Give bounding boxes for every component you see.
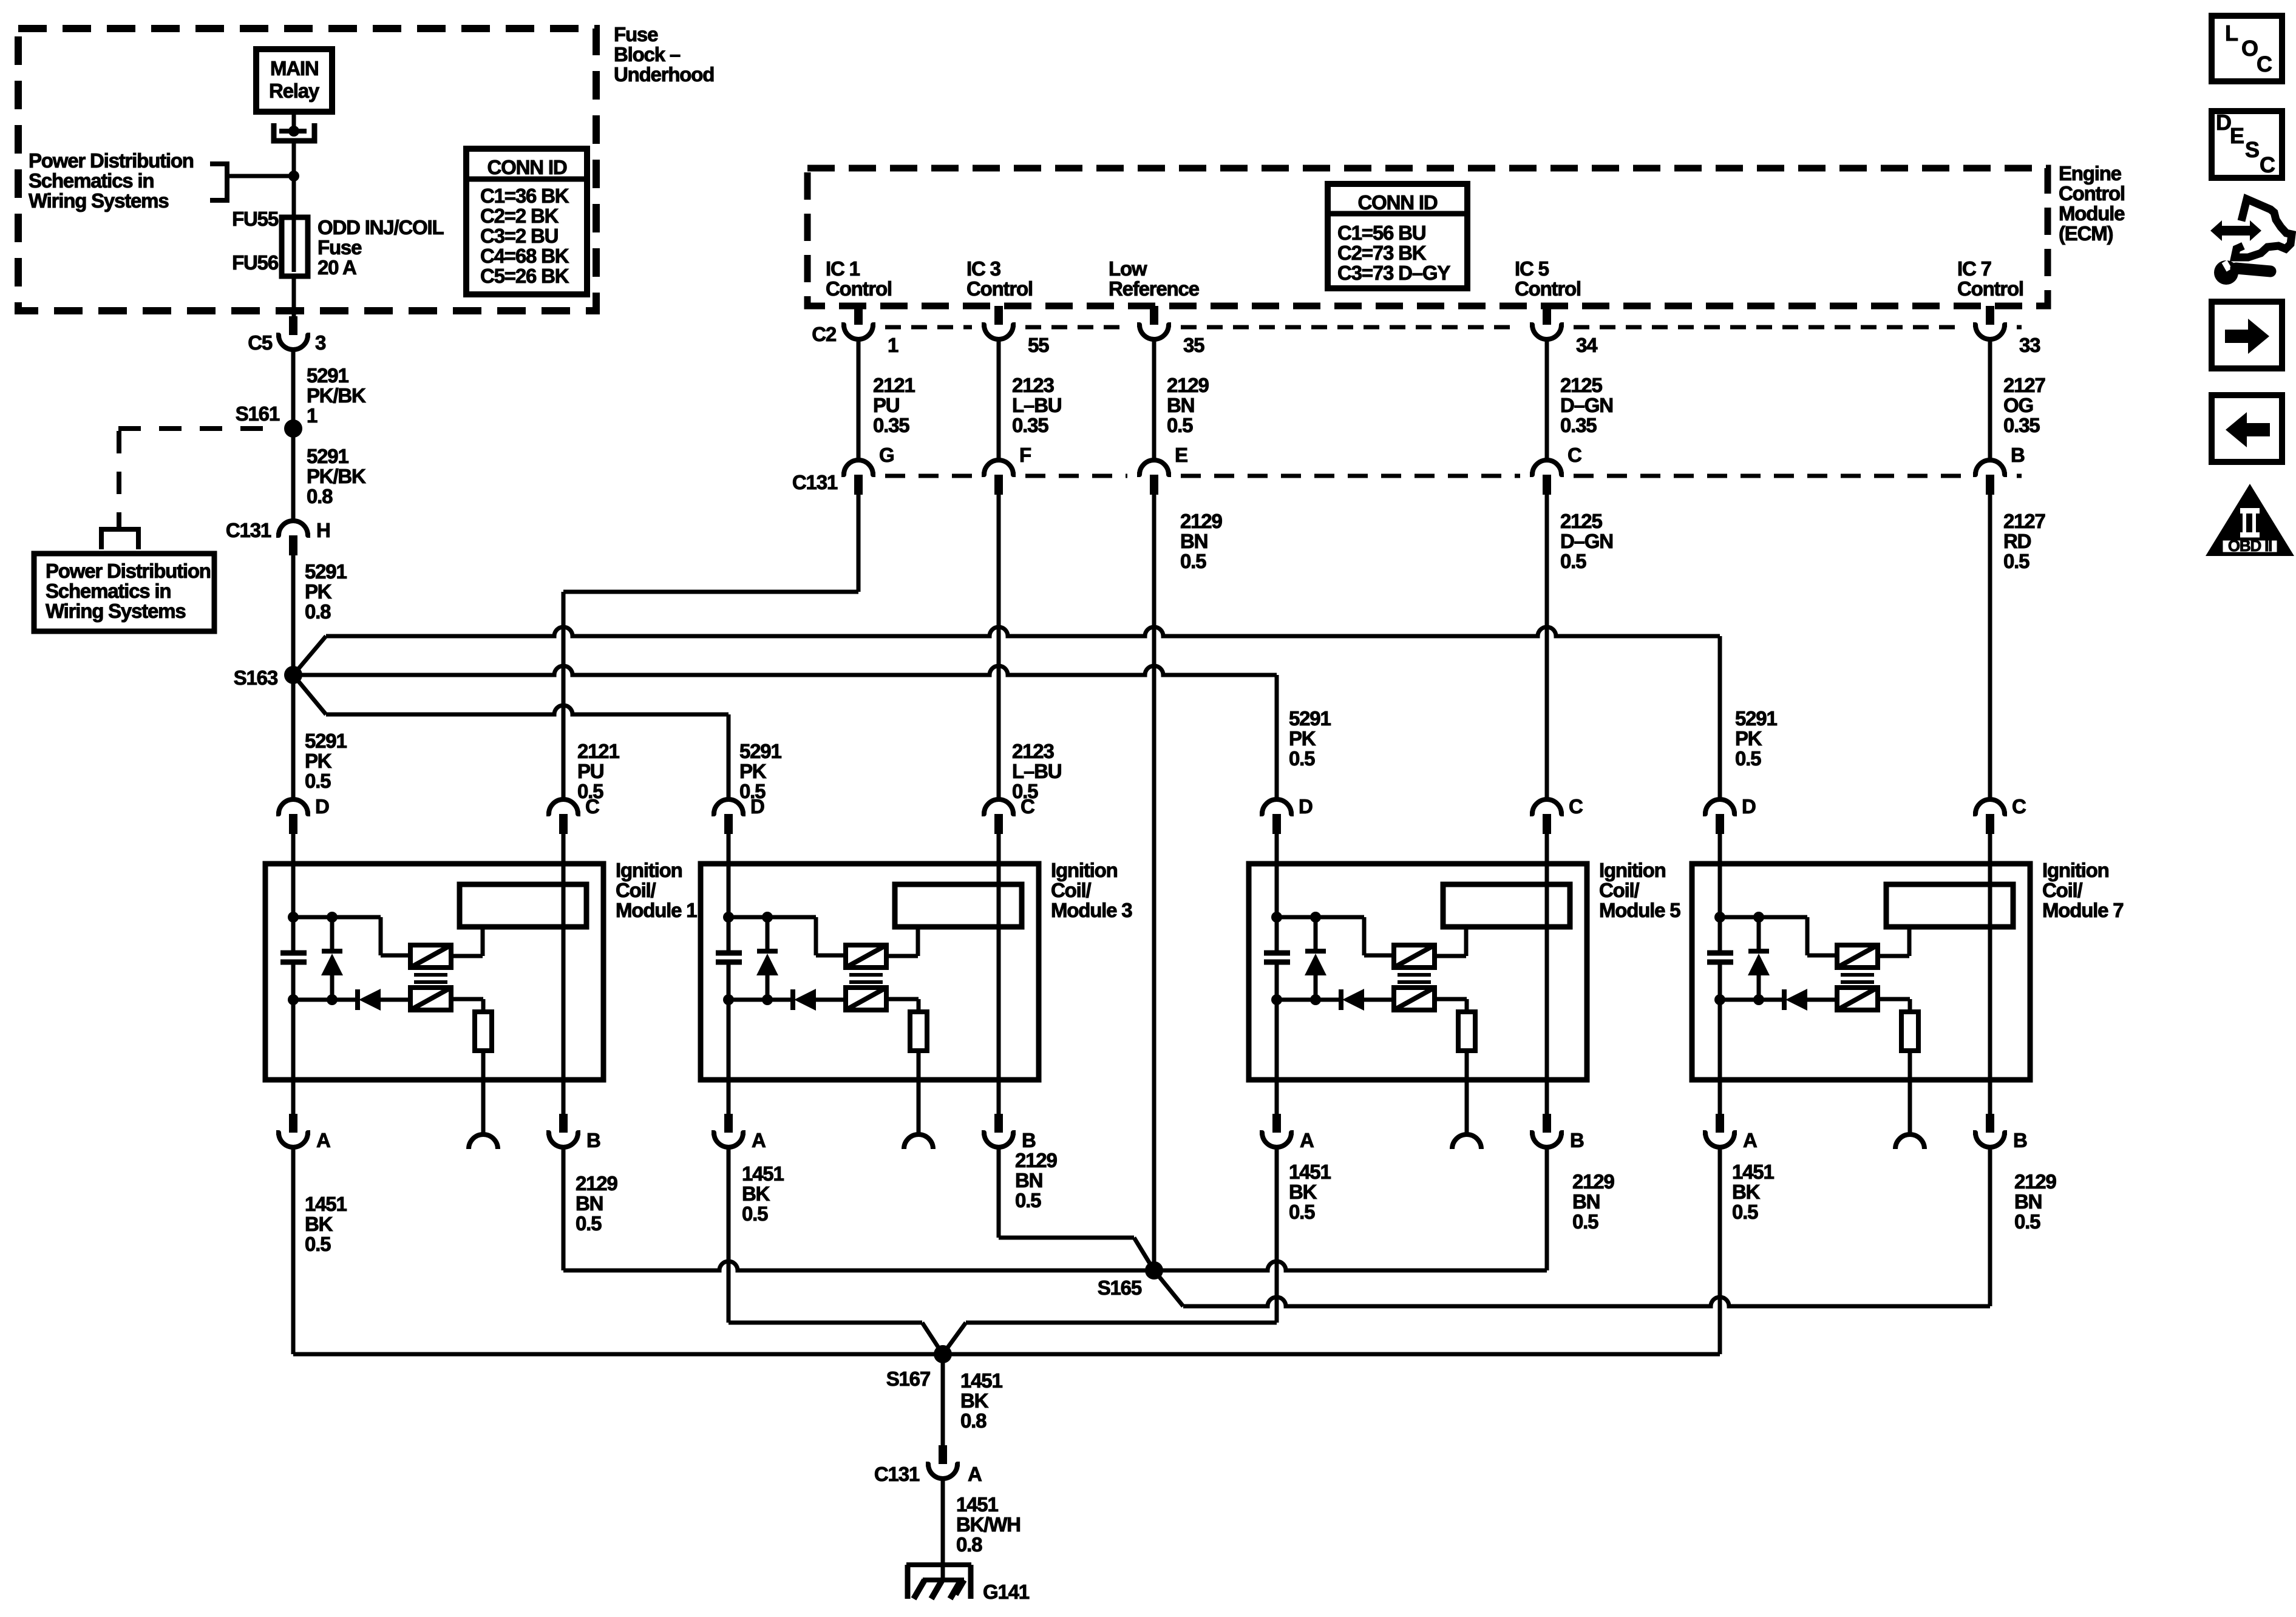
coil primary winding (module 1) <box>410 945 451 968</box>
label: IC 5 Control <box>1515 257 1581 300</box>
zener diode (module 7) <box>1748 917 1770 1000</box>
spark plug terminal (module 3) <box>904 1134 933 1149</box>
label: Ignition Coil/ Module 3 <box>1051 859 1132 921</box>
svg-text:BK: BK <box>1289 1181 1317 1203</box>
svg-text:A: A <box>752 1129 766 1151</box>
splice S165 <box>1098 1261 1163 1299</box>
svg-text:PK/BK: PK/BK <box>307 465 366 487</box>
svg-text:2129: 2129 <box>576 1172 617 1195</box>
svg-text:1451: 1451 <box>305 1193 347 1215</box>
svg-text:2123: 2123 <box>1012 374 1054 396</box>
zener diode (module 5) <box>1305 917 1326 1000</box>
connector: module 7 pin D <box>1703 795 1756 834</box>
label: ODD INJ/COIL Fuse 20 A <box>318 216 444 279</box>
wire C131-C down, label 2125 D-GN 0.5 <box>1547 495 1613 799</box>
svg-text:35: 35 <box>1183 334 1204 356</box>
svg-text:G: G <box>879 444 894 466</box>
svg-text:2129: 2129 <box>1167 374 1209 396</box>
wire pin D into module 3 <box>727 834 731 864</box>
svg-text:A: A <box>316 1129 330 1151</box>
svg-text:Reference: Reference <box>1109 277 1200 300</box>
wire: module 5 left rail (D to A) <box>1275 864 1279 1080</box>
svg-text:Control: Control <box>1957 277 2023 300</box>
wire C131-F to module 3 pin C <box>997 495 1001 799</box>
svg-text:O: O <box>2241 36 2258 61</box>
connector block (module 5) <box>1443 884 1570 927</box>
svg-text:C2=73 BK: C2=73 BK <box>1337 242 1427 264</box>
connector: module 5 pin A <box>1260 1114 1314 1151</box>
svg-text:Relay: Relay <box>269 80 320 102</box>
svg-text:5291: 5291 <box>1289 707 1331 730</box>
svg-text:C: C <box>2257 52 2272 76</box>
svg-text:C: C <box>2012 795 2026 818</box>
svg-text:1451: 1451 <box>1732 1161 1774 1183</box>
wire S163 to module 1 D, label 5291 PK 0.5 <box>293 675 347 799</box>
wire pin A below module 5 <box>1275 1080 1279 1114</box>
svg-text:1451: 1451 <box>742 1162 784 1185</box>
wire C2-55 to C131-F, label 2123 L-BU 0.35 <box>999 341 1061 460</box>
coil primary winding (module 7) <box>1837 945 1878 968</box>
svg-text:Module: Module <box>2059 202 2125 225</box>
bracket: power distribution reference <box>210 164 227 200</box>
svg-text:1451: 1451 <box>1289 1161 1331 1183</box>
svg-text:IC 3: IC 3 <box>966 257 1001 280</box>
svg-text:0.5: 0.5 <box>305 770 331 792</box>
svg-text:C: C <box>585 795 599 818</box>
svg-text:5291: 5291 <box>307 364 348 387</box>
label FU56 <box>232 251 279 274</box>
coil core (module 3) <box>849 975 883 982</box>
svg-text:BN: BN <box>1572 1190 1600 1213</box>
capacitor (module 3) <box>716 953 742 962</box>
svg-text:PU: PU <box>873 394 899 416</box>
svg-text:A: A <box>968 1463 982 1485</box>
connector C2 pin 33 <box>1973 306 2040 356</box>
svg-text:A: A <box>1743 1129 1757 1151</box>
label: Engine Control Module (ECM) <box>2059 162 2125 245</box>
coil secondary winding (module 7) <box>1837 988 1878 1010</box>
coil primary winding (module 3) <box>846 945 886 968</box>
svg-text:1: 1 <box>888 334 898 356</box>
wire: module 7 left rail (D to A) <box>1718 864 1722 1080</box>
svg-text:B: B <box>2011 444 2025 466</box>
svg-text:0.5: 0.5 <box>1572 1210 1598 1233</box>
svg-text:2123: 2123 <box>1012 740 1054 762</box>
wire node1 jog to primary coil (module 3) <box>729 917 846 955</box>
svg-text:Module 3: Module 3 <box>1051 899 1132 921</box>
svg-text:PK: PK <box>1289 727 1316 750</box>
fuse block underhood (dashed box) <box>18 29 596 311</box>
connector C2 pin 55 <box>982 306 1049 356</box>
svg-text:Schematics in: Schematics in <box>46 580 171 602</box>
svg-text:0.5: 0.5 <box>1560 550 1586 572</box>
wire module 5 B to S165, label 2129 BN 0.5 <box>1154 1149 1614 1270</box>
svg-text:C2=2 BK: C2=2 BK <box>480 205 559 227</box>
wire pin B below module 1 <box>562 1080 566 1114</box>
wire module 1 A to S167, label 1451 BK 0.5 <box>293 1149 347 1354</box>
svg-text:L: L <box>2225 21 2238 46</box>
svg-text:Underhood: Underhood <box>614 63 714 86</box>
svg-text:BN: BN <box>2014 1190 2042 1213</box>
svg-text:5291: 5291 <box>305 730 347 752</box>
svg-text:Ignition: Ignition <box>2042 859 2109 881</box>
wire pin A below module 1 <box>291 1080 296 1114</box>
svg-text:BN: BN <box>576 1192 603 1215</box>
svg-text:IC 1: IC 1 <box>826 257 860 280</box>
svg-text:Control: Control <box>826 277 892 300</box>
connector: module 7 pin B <box>1973 1114 2027 1151</box>
connector: module 3 pin A <box>712 1114 766 1151</box>
resistor (module 7) <box>1901 1012 1918 1051</box>
ground G141 <box>906 1565 1030 1603</box>
connector: module 7 pin A <box>1703 1114 1757 1151</box>
svg-text:Control: Control <box>966 277 1033 300</box>
svg-text:Power Distribution: Power Distribution <box>29 149 194 172</box>
ignition coil module 7 box <box>1692 864 2030 1080</box>
svg-text:0.35: 0.35 <box>1560 414 1597 436</box>
splice S167 <box>886 1345 952 1390</box>
svg-text:S: S <box>2245 137 2259 162</box>
label: Power Distribution Schematics in Wiring Systems (top) <box>29 149 194 212</box>
svg-text:S163: S163 <box>234 666 278 689</box>
wire pin D into module 7 <box>1718 834 1722 864</box>
svg-text:RD: RD <box>2003 530 2031 552</box>
svg-text:Control: Control <box>1515 277 1581 300</box>
label: IC 3 Control <box>966 257 1033 300</box>
label: Low Reference <box>1109 257 1200 300</box>
engine control module ECM (dashed box) <box>807 168 2048 306</box>
svg-text:C1=56 BU: C1=56 BU <box>1337 222 1425 244</box>
svg-text:PK: PK <box>305 580 332 603</box>
wire pin C into module 5 <box>1545 834 1549 864</box>
svg-text:PU: PU <box>577 760 603 782</box>
wire C131 H to S163, label 5291 PK 0.8 <box>293 555 347 675</box>
resistor (module 1) <box>475 1012 492 1051</box>
connector: module 3 pin D <box>712 795 764 834</box>
svg-text:0.35: 0.35 <box>1012 414 1048 436</box>
wire C5 to S161, label 5291 PK/BK 1 <box>293 351 366 429</box>
wire pin B below module 7 <box>1988 1080 1992 1114</box>
ignition coil module 3 box <box>701 864 1039 1080</box>
wire secondary to resistor (module 7) <box>1878 999 1910 1012</box>
svg-text:ODD INJ/COIL: ODD INJ/COIL <box>318 216 444 239</box>
connector C131 pin F <box>982 444 1031 495</box>
spark plug terminal (module 7) <box>1895 1134 1924 1149</box>
connector C2 pin 34 <box>1530 306 1598 356</box>
svg-text:0.5: 0.5 <box>742 1202 768 1225</box>
connector block (module 3) <box>895 884 1022 927</box>
svg-text:Ignition: Ignition <box>1599 859 1666 881</box>
wire module 3 A to S167, label 1451 BK 0.5 <box>729 1149 943 1354</box>
icon: OBD II triangle <box>2206 484 2294 556</box>
svg-text:0.5: 0.5 <box>1015 1189 1041 1212</box>
wire node1 jog to primary coil (module 1) <box>293 917 410 955</box>
svg-text:0.5: 0.5 <box>2003 550 2029 572</box>
wire: module 7 right rail (C to B) <box>1988 864 1992 1080</box>
svg-text:5291: 5291 <box>305 560 347 583</box>
svg-text:0.5: 0.5 <box>1735 747 1761 770</box>
svg-text:IC 5: IC 5 <box>1515 257 1549 280</box>
svg-text:33: 33 <box>2019 334 2040 356</box>
label: IC 7 Control <box>1957 257 2023 300</box>
wire secondary to resistor (module 5) <box>1435 999 1467 1012</box>
node dots (module 1) <box>288 912 338 1005</box>
wire module 5 A to S167, label 1451 BK 0.5 <box>943 1149 1331 1354</box>
wire: module 1 right rail (C to B) <box>562 864 566 1080</box>
connector C2 pin 35 <box>1137 306 1204 356</box>
wire C2-1 to C131-G, label 2121 PU 0.35 <box>858 341 915 460</box>
wire module 1 B to S165, label 2129 BN 0.5 <box>563 1149 1154 1270</box>
svg-text:Wiring Systems: Wiring Systems <box>29 189 168 212</box>
wire S163 branch to module 7 D <box>293 627 1720 799</box>
svg-text:S161: S161 <box>236 402 280 425</box>
svg-text:PK/BK: PK/BK <box>307 384 366 407</box>
wire primary to connector block (module 1) <box>451 927 483 956</box>
svg-text:0.8: 0.8 <box>956 1533 982 1556</box>
connector: module 5 pin D <box>1260 795 1313 834</box>
connector: module 1 pin B <box>546 1114 600 1151</box>
wire C131 A to ground, label 1451 BK/WH 0.8 <box>943 1480 1021 1578</box>
wire C131-E down, label 2129 BN 0.5 <box>1154 495 1222 1270</box>
svg-text:5291: 5291 <box>307 445 348 467</box>
CONN ID table (ECM) <box>1328 184 1467 288</box>
ignition coil module 1 box <box>265 864 603 1080</box>
coil secondary winding (module 3) <box>846 988 886 1010</box>
splice S163 <box>234 666 302 689</box>
svg-text:B: B <box>2013 1129 2027 1151</box>
icon: DESC box <box>2212 110 2282 178</box>
wire S163 branch to module 5 D, label 5291 PK 0.5 <box>293 666 1777 799</box>
wire pin A below module 7 <box>1718 1080 1722 1114</box>
svg-text:20 A: 20 A <box>318 256 356 279</box>
svg-text:2129: 2129 <box>1180 510 1222 532</box>
svg-text:IC 7: IC 7 <box>1957 257 1991 280</box>
wire pin B below module 3 <box>997 1080 1001 1114</box>
svg-text:0.5: 0.5 <box>2014 1210 2040 1233</box>
node dots (module 3) <box>723 912 773 1005</box>
svg-text:0.5: 0.5 <box>1167 414 1193 436</box>
wire resistor to spark terminal (module 1) <box>481 1051 486 1134</box>
coil core (module 5) <box>1398 975 1431 982</box>
icon: LOC box <box>2212 16 2282 81</box>
dashed leader from S161 to power distribution box <box>101 429 280 549</box>
coil primary winding (module 5) <box>1394 945 1435 968</box>
diode (module 3) <box>729 989 846 1011</box>
svg-text:C131: C131 <box>792 471 838 493</box>
connector C131 pin B <box>1973 444 2025 495</box>
svg-text:E: E <box>1175 444 1187 466</box>
wire C2-34 to C131-C, label 2125 D-GN 0.35 <box>1547 341 1613 460</box>
label: IC 1 Control <box>826 257 892 300</box>
svg-text:OBD II: OBD II <box>2228 537 2272 555</box>
wire pin A below module 3 <box>727 1080 731 1114</box>
svg-text:1: 1 <box>307 404 318 427</box>
svg-text:Module 7: Module 7 <box>2042 899 2123 921</box>
wire resistor to spark terminal (module 7) <box>1908 1051 1912 1134</box>
svg-text:1451: 1451 <box>960 1369 1002 1392</box>
svg-text:D–GN: D–GN <box>1560 394 1613 416</box>
svg-text:Coil/: Coil/ <box>2042 879 2083 901</box>
label FU55 <box>232 208 279 230</box>
svg-text:C: C <box>1569 795 1583 818</box>
svg-text:PK: PK <box>739 760 767 782</box>
splice S161 <box>236 402 302 438</box>
svg-text:L–BU: L–BU <box>1012 760 1061 782</box>
capacitor (module 5) <box>1264 953 1290 962</box>
svg-text:Ignition: Ignition <box>1051 859 1118 881</box>
svg-text:Coil/: Coil/ <box>1599 879 1640 901</box>
svg-text:FU56: FU56 <box>232 251 279 274</box>
node dots (module 5) <box>1271 912 1321 1005</box>
svg-text:1451: 1451 <box>956 1493 998 1516</box>
connector: module 3 pin B <box>982 1114 1036 1151</box>
fuse FU55/FU56 ODD INJ/COIL 20 A <box>282 217 308 276</box>
wire: module 1 left rail (D to A) <box>291 864 296 1080</box>
connector C5 pin 3 <box>248 316 326 354</box>
svg-text:(ECM): (ECM) <box>2059 222 2113 245</box>
svg-text:0.8: 0.8 <box>305 600 331 623</box>
wire pin D into module 5 <box>1275 834 1279 864</box>
resistor (module 3) <box>910 1012 927 1051</box>
label: Ignition Coil/ Module 1 <box>616 859 697 921</box>
svg-text:0.5: 0.5 <box>1289 1201 1315 1223</box>
svg-text:MAIN: MAIN <box>270 57 319 80</box>
icon: vehicle with arrows and wrench <box>2210 199 2292 285</box>
svg-text:Wiring Systems: Wiring Systems <box>46 600 185 622</box>
svg-text:C3=2 BU: C3=2 BU <box>480 225 558 247</box>
svg-text:E: E <box>2230 123 2244 148</box>
svg-text:C131: C131 <box>874 1463 920 1485</box>
diode (module 7) <box>1720 989 1837 1011</box>
svg-text:C4=68 BK: C4=68 BK <box>480 245 569 267</box>
wire pin C into module 1 <box>562 834 566 864</box>
svg-text:CONN ID: CONN ID <box>1358 191 1438 214</box>
wire module 7 B to S165, label 2129 BN 0.5 <box>1154 1149 2056 1306</box>
connector: module 7 pin C <box>1973 795 2026 834</box>
connector: module 5 pin C <box>1530 795 1583 834</box>
wire S167 down, label 1451 BK 0.8 <box>943 1354 1002 1445</box>
svg-text:PK: PK <box>1735 727 1762 750</box>
wire fuse to C5 <box>292 276 296 316</box>
svg-text:Control: Control <box>2059 182 2125 205</box>
connector block (module 7) <box>1886 884 2013 927</box>
svg-text:Module 5: Module 5 <box>1599 899 1680 921</box>
svg-text:2129: 2129 <box>2014 1170 2056 1193</box>
capacitor (module 1) <box>280 953 307 962</box>
svg-text:2127: 2127 <box>2003 510 2045 532</box>
svg-text:0.35: 0.35 <box>2003 414 2040 436</box>
wire module 7 A to S167, label 1451 BK 0.5 <box>293 1149 1774 1354</box>
svg-text:C3=73 D–GY: C3=73 D–GY <box>1337 262 1450 284</box>
wire primary to connector block (module 5) <box>1435 927 1466 956</box>
svg-text:D: D <box>315 795 329 818</box>
svg-text:B: B <box>586 1129 600 1151</box>
svg-text:2129: 2129 <box>1015 1149 1057 1171</box>
svg-text:0.8: 0.8 <box>307 485 333 507</box>
wire pin D into module 1 <box>291 834 296 864</box>
diode (module 1) <box>293 989 410 1011</box>
zener diode (module 3) <box>756 917 778 1000</box>
svg-text:D: D <box>2216 110 2231 135</box>
label box: Power Distribution Schematics in Wiring Systems (lower) <box>34 554 214 631</box>
svg-text:55: 55 <box>1028 334 1049 356</box>
wire C131-G jog to module 1 pin C <box>563 495 858 799</box>
svg-text:BK: BK <box>742 1182 770 1205</box>
connector C2 pin 1 <box>841 306 898 356</box>
label 2123 L-BU 0.5 (module 3 C wire) <box>1012 740 1061 802</box>
connector block (module 1) <box>460 884 586 927</box>
svg-text:2121: 2121 <box>873 374 915 396</box>
coil core (module 7) <box>1841 975 1874 982</box>
coil secondary winding (module 5) <box>1394 988 1435 1010</box>
coil secondary winding (module 1) <box>410 988 451 1010</box>
svg-text:A: A <box>1300 1129 1314 1151</box>
svg-text:Engine: Engine <box>2059 162 2122 185</box>
svg-text:0.5: 0.5 <box>1180 550 1206 572</box>
zener diode (module 1) <box>321 917 343 1000</box>
svg-text:5291: 5291 <box>1735 707 1777 730</box>
svg-text:Coil/: Coil/ <box>616 879 656 901</box>
wire relay to fuse <box>292 176 296 222</box>
spark plug terminal (module 5) <box>1452 1134 1481 1149</box>
connector: module 1 pin A <box>276 1114 330 1151</box>
wire: module 5 right rail (C to B) <box>1545 864 1549 1080</box>
wire C131-B down, label 2127 RD 0.5 <box>1990 495 2045 799</box>
svg-text:BK/WH: BK/WH <box>956 1513 1021 1536</box>
svg-text:D–GN: D–GN <box>1560 530 1613 552</box>
relay contact symbol <box>274 112 314 174</box>
wire primary to connector block (module 7) <box>1878 927 1909 956</box>
connector: module 1 pin C <box>546 795 599 834</box>
svg-text:Power Distribution: Power Distribution <box>46 560 211 582</box>
svg-text:C: C <box>1021 795 1034 818</box>
coil core (module 1) <box>414 975 447 982</box>
connector C131 pin A <box>874 1445 982 1485</box>
node dots (module 7) <box>1714 912 1764 1005</box>
connector: module 1 pin D <box>276 795 329 834</box>
wire secondary to resistor (module 1) <box>451 999 483 1012</box>
svg-text:C: C <box>2260 152 2275 177</box>
svg-text:5291: 5291 <box>739 740 781 762</box>
svg-text:3: 3 <box>315 331 326 354</box>
wire resistor to spark terminal (module 5) <box>1465 1051 1469 1134</box>
svg-text:D: D <box>1299 795 1313 818</box>
connector C131 pin H <box>226 519 330 555</box>
resistor (module 5) <box>1458 1012 1475 1051</box>
svg-text:0.5: 0.5 <box>305 1233 331 1255</box>
svg-text:C5: C5 <box>248 331 273 354</box>
svg-text:L–BU: L–BU <box>1012 394 1061 416</box>
svg-text:Fuse: Fuse <box>318 236 362 259</box>
svg-text:S167: S167 <box>886 1368 930 1390</box>
wire node1 jog to primary coil (module 7) <box>1720 917 1837 955</box>
label: Ignition Coil/ Module 7 <box>2042 859 2123 921</box>
label: Fuse Block - Underhood <box>614 23 714 86</box>
wire node1 jog to primary coil (module 5) <box>1277 917 1394 955</box>
svg-text:2121: 2121 <box>577 740 619 762</box>
label: Ignition Coil/ Module 5 <box>1599 859 1680 921</box>
capacitor (module 7) <box>1707 953 1733 962</box>
diode (module 5) <box>1277 989 1394 1011</box>
svg-text:C131: C131 <box>226 519 271 541</box>
wire secondary to resistor (module 3) <box>886 999 919 1012</box>
wire S161 to C131 H, label 5291 PK/BK 0.8 <box>293 429 366 521</box>
connector C131 pin C <box>1530 444 1581 495</box>
svg-text:C5=26 BK: C5=26 BK <box>480 265 569 287</box>
svg-text:BN: BN <box>1015 1169 1042 1192</box>
node: power feed junction <box>288 171 299 181</box>
svg-text:FU55: FU55 <box>232 208 279 230</box>
